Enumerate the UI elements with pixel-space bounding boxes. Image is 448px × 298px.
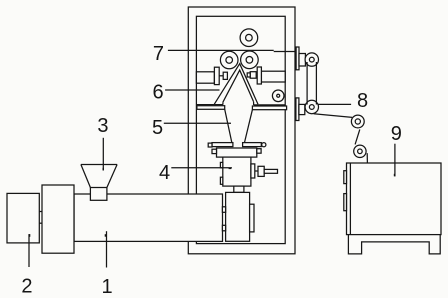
svg-text:1: 1	[101, 276, 112, 298]
flange2 right tab	[257, 149, 261, 154]
pulley 1	[305, 53, 318, 66]
svg-text:9: 9	[391, 123, 402, 145]
coupling line A	[39, 211, 42, 213]
flange1 right cap circle	[262, 143, 266, 147]
hopper right side	[107, 165, 117, 188]
leader 2	[28, 234, 30, 267]
pulley bracket 2	[299, 104, 305, 114]
barrel	[74, 194, 223, 241]
roller right	[241, 51, 259, 69]
pulley 2	[305, 100, 318, 113]
funnel left wall	[225, 109, 233, 146]
sheet line roller3 to roller4	[355, 129, 360, 144]
chevron right end post	[253, 102, 255, 105]
svg-text:2: 2	[21, 275, 32, 297]
motor box 2	[7, 193, 39, 243]
flange2	[217, 148, 257, 157]
outer frame	[188, 7, 295, 254]
leader 9 tick	[394, 174, 395, 177]
svg-text:8: 8	[357, 90, 368, 112]
box9 inner left line	[349, 163, 351, 235]
flange1 left cap	[208, 143, 212, 147]
leader 1 tick	[105, 234, 107, 237]
svg-text:5: 5	[152, 117, 163, 139]
leader 9	[394, 144, 396, 177]
lower block	[226, 192, 250, 241]
leader 5	[164, 122, 231, 124]
svg-text:3: 3	[97, 115, 108, 137]
left rail	[196, 72, 214, 83]
coupling line B	[39, 222, 42, 224]
right bearing block	[257, 67, 261, 84]
left shelf	[197, 106, 225, 110]
left bearing block	[214, 67, 219, 84]
svg-text:7: 7	[153, 43, 164, 65]
right nub	[247, 73, 250, 77]
belt right line	[315, 62, 317, 105]
sheet line roller4 to box	[366, 153, 368, 163]
leader 6	[165, 89, 219, 91]
box9 bench legs	[348, 235, 440, 254]
flange1 right segment	[243, 143, 262, 147]
screw body	[258, 166, 264, 176]
hopper throat	[90, 188, 107, 201]
roller left	[220, 51, 238, 69]
left sub-shelf line	[196, 104, 223, 106]
hopper left side	[81, 165, 91, 188]
box9 left tab A	[344, 171, 347, 184]
screw shaft	[264, 169, 277, 173]
pulley bar 2	[296, 98, 299, 121]
pulley bar 1	[296, 47, 299, 70]
chevron outer	[214, 64, 258, 104]
head left tab B	[220, 177, 222, 184]
right shelf	[252, 106, 286, 110]
left stub	[219, 75, 223, 77]
box9 left tab B	[344, 194, 347, 211]
gearbox	[42, 185, 74, 253]
right bearing square	[250, 72, 256, 79]
winder box 9	[347, 163, 442, 235]
head box U4	[223, 157, 251, 186]
leader 1	[106, 231, 108, 267]
wire to top pulley bracket	[274, 51, 297, 53]
leader 4	[171, 167, 232, 169]
lower block left tab B	[222, 225, 225, 231]
roller top	[240, 29, 258, 47]
left bearing square	[223, 72, 227, 79]
inner frame	[196, 16, 285, 243]
leader 2 tick	[29, 234, 31, 237]
svg-text:6: 6	[152, 81, 163, 103]
sheet line pulley2 to roller3	[314, 114, 353, 118]
belt left line	[306, 62, 308, 105]
guide roller 3	[351, 115, 364, 128]
screw link	[255, 170, 258, 172]
leader 4 tick	[229, 168, 232, 169]
svg-text:4: 4	[159, 162, 170, 184]
funnel right wall	[244, 110, 253, 147]
leader 3 tick	[103, 168, 105, 171]
leader 3	[102, 138, 104, 171]
screw collar	[251, 164, 255, 178]
right sub-shelf line	[254, 104, 286, 106]
lower block right tab	[250, 204, 254, 232]
flange2 left tab	[212, 149, 217, 153]
head left tab A	[220, 162, 222, 167]
motor circle	[272, 90, 284, 102]
hopper top	[81, 164, 117, 166]
pulley bracket 1	[299, 54, 305, 67]
flange1 left segment	[212, 143, 233, 147]
guide roller 4	[354, 145, 366, 157]
chevron left end post	[222, 102, 224, 105]
right rail	[261, 71, 285, 82]
neck	[234, 186, 244, 192]
leader 8	[318, 103, 351, 105]
leader 7 line across frame	[168, 49, 274, 51]
chevron inner	[223, 70, 254, 102]
lower block left tab A	[222, 207, 225, 213]
